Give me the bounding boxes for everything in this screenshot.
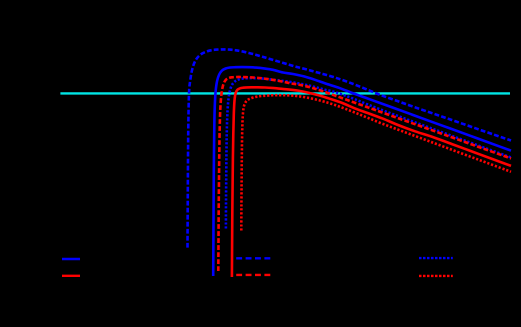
blue dotted curve: [226, 78, 511, 228]
legend 3: dotted: [419, 257, 453, 259]
blue solid curve: [213, 67, 511, 276]
red solid curve: [232, 87, 511, 277]
legend 1: solid: [62, 258, 80, 260]
blue dashed curve: [188, 49, 512, 247]
cyan horizontal threshold line: [60, 92, 510, 94]
red dashed curve: [218, 77, 511, 271]
red dotted curve: [241, 95, 511, 230]
legend 2: dashed: [236, 257, 272, 259]
